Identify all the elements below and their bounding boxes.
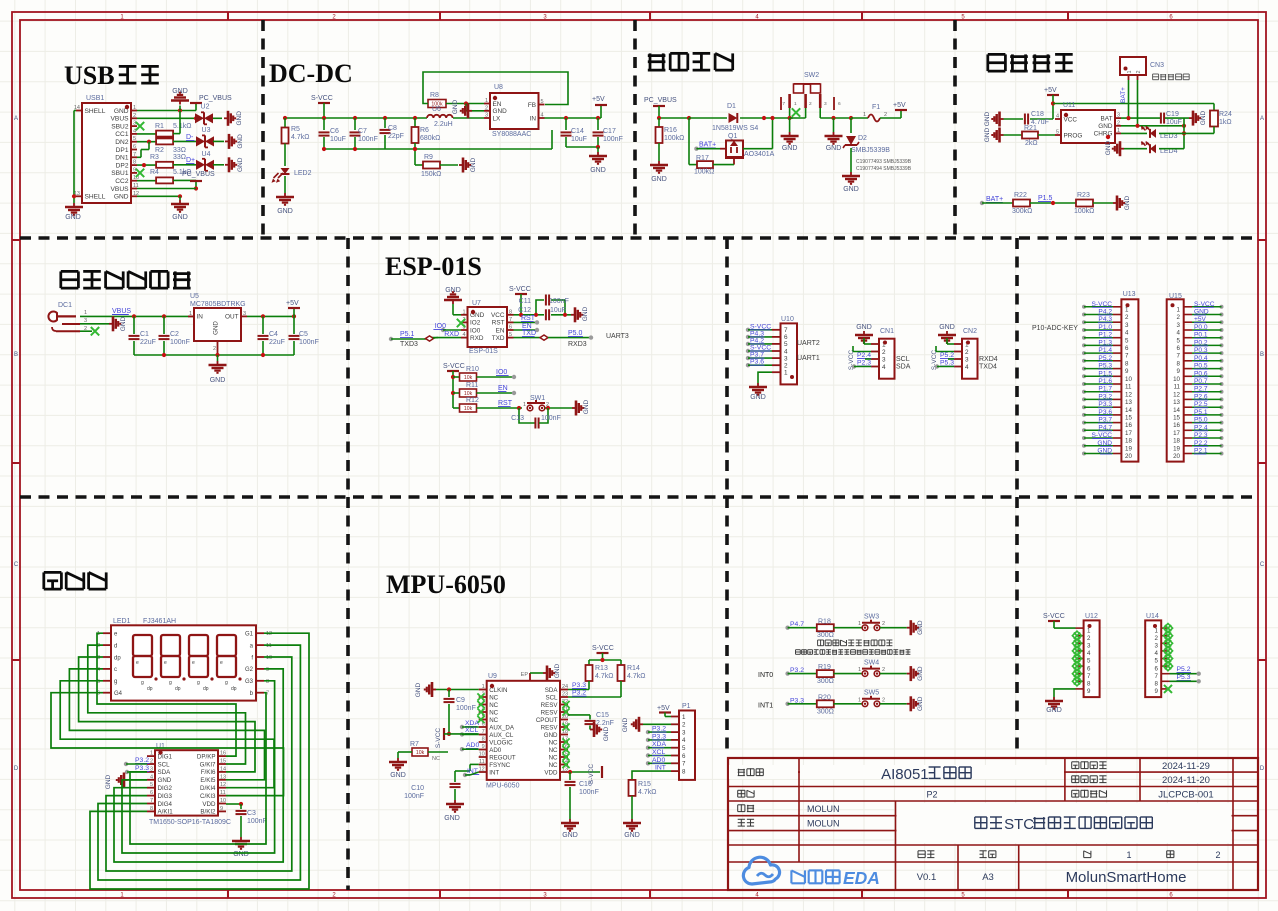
svg-text:GND: GND [917,666,924,681]
svg-text:VDD: VDD [544,769,558,776]
wire GND row to vertical [1121,125,1184,127]
svg-text:15: 15 [1125,415,1132,422]
svg-text:CN3: CN3 [1150,62,1164,69]
resistor R23 100k [1076,200,1093,207]
wire shell left [74,110,76,112]
wire d2 gnd [850,148,852,172]
svg-text:6: 6 [1125,345,1129,352]
wire r14 to SCL [620,681,622,697]
svg-text:SY8088AAC: SY8088AAC [492,131,531,138]
capacitor C3 100nF [226,803,241,805]
svg-text:U15: U15 [1169,293,1182,300]
svg-text:G3: G3 [245,679,254,685]
svg-text:GND: GND [984,111,991,126]
svg-text:DN1: DN1 [115,155,129,162]
svg-text:MolunSmartHome: MolunSmartHome [1066,869,1187,886]
resistor R24 1k [1210,111,1218,127]
ground GND right of U4 [225,164,229,166]
svg-text:C12: C12 [518,307,531,314]
svg-text:1N5819WS S4: 1N5819WS S4 [712,125,758,132]
ground GND d2 [850,172,852,176]
svg-text:GND: GND [65,214,81,221]
svg-text:RST: RST [498,400,513,407]
svg-text:P3.7: P3.7 [750,352,764,359]
svg-text:8: 8 [682,768,686,775]
svg-text:5: 5 [1087,658,1091,665]
ground GND SW4 [907,673,911,675]
svg-text:+5V: +5V [592,96,605,103]
svg-text:7: 7 [1125,353,1129,360]
svg-text:PC_VBUS: PC_VBUS [644,97,677,104]
svg-text:33Ω: 33Ω [173,147,186,154]
svg-text:NC: NC [489,709,498,716]
resistor R21 2k [1004,134,1023,136]
svg-text:P5.2: P5.2 [1098,355,1112,362]
svg-text:SW4: SW4 [864,659,879,666]
svg-text:8: 8 [1155,681,1159,688]
ground GND sw1 [572,407,576,409]
svg-text:1: 1 [150,751,153,757]
svg-text:NC: NC [489,702,498,709]
svg-text:2: 2 [882,667,885,673]
svg-text:GND: GND [856,324,872,331]
wire CC1 to R1 [137,133,156,135]
svg-text:GND: GND [158,777,172,784]
svg-text:SDA: SDA [158,769,172,776]
svg-text:g: g [141,680,144,686]
svg-text:GND: GND [1097,440,1112,447]
svg-text:RESV: RESV [541,702,559,709]
wire VBUS pin11 [137,188,196,190]
svg-text:G/KI7: G/KI7 [200,761,216,768]
svg-text:INT: INT [489,769,499,776]
svg-text:2: 2 [965,349,969,356]
resistor R8 feedback [428,100,446,108]
no-connect sw2 [792,108,800,116]
svg-text:U9: U9 [488,673,497,680]
svg-text:20: 20 [1173,453,1180,460]
svg-text:23: 23 [562,692,568,698]
svg-text:GND: GND [582,306,589,321]
svg-text:BAT: BAT [1101,115,1113,122]
svg-text:P1.5: P1.5 [1098,370,1112,377]
svg-text:CC2: CC2 [115,178,129,185]
no-connect SBU1 [136,169,144,177]
svg-text:100nF: 100nF [247,818,267,825]
ground GND c15 [590,729,594,731]
svg-text:R19: R19 [818,664,831,671]
resistor R9 150k [415,164,423,166]
svg-text:P0.5: P0.5 [1194,363,1208,370]
section divider horizontal lower [20,495,1258,499]
svg-text:14: 14 [220,766,226,772]
svg-text:4: 4 [1155,650,1159,657]
svg-text:9: 9 [266,667,269,673]
svg-text:2.2nF: 2.2nF [596,720,614,727]
svg-text:c: c [114,667,117,673]
svg-text:V0.1: V0.1 [917,872,937,883]
svg-text:SCL: SCL [896,356,910,363]
title label schematic [738,769,740,776]
TVS diode U4 [196,160,205,170]
svg-text:C7: C7 [358,128,367,135]
svg-text:NC: NC [549,754,558,761]
wire r13 to SDA [588,681,590,690]
svg-text:D: D [1260,766,1265,772]
section title lamp supply [61,270,79,273]
svg-text:D2: D2 [858,135,867,142]
svg-text:STC: STC [1004,816,1034,833]
svg-text:CN1: CN1 [880,328,894,335]
svg-text:2: 2 [1136,70,1142,73]
wire out rail [247,315,294,317]
svg-text:15: 15 [220,759,226,765]
display wire loops left [97,633,236,756]
svg-text:P3.2: P3.2 [652,726,666,733]
svg-text:2: 2 [809,101,812,107]
svg-text:dp: dp [231,686,237,692]
title value board name [975,816,987,818]
LED LED2 [281,168,290,174]
capacitor C18 4.7uF [1004,118,1024,120]
svg-text:14: 14 [1125,407,1132,414]
capacitor C4 22uF [262,316,264,334]
svg-text:R1: R1 [155,123,164,130]
svg-text:100kΩ: 100kΩ [1074,208,1094,215]
svg-text:E/KI5: E/KI5 [200,777,216,784]
svg-text:EP: EP [521,672,529,678]
svg-text:150kΩ: 150kΩ [421,171,441,178]
section divider vertical USB/DC-DC [261,20,265,238]
svg-text:17: 17 [1173,430,1180,437]
connector P1 [679,711,695,780]
svg-text:GND: GND [917,696,924,711]
svg-text:R23: R23 [1077,192,1090,199]
title label size [980,850,987,852]
svg-text:24: 24 [562,684,568,690]
power flag PC_VBUS lower [190,180,202,182]
svg-text:1: 1 [858,697,861,703]
wire DN2 jog to DN1 [148,142,150,150]
svg-text:U14: U14 [1146,613,1159,620]
svg-text:GND: GND [1098,123,1113,130]
svg-text:C1: C1 [140,331,149,338]
svg-text:GND: GND [939,324,955,331]
svg-text:12: 12 [479,767,485,773]
svg-text:10k: 10k [416,750,425,756]
svg-text:GND: GND [826,145,842,152]
svg-text:U4: U4 [202,151,211,158]
svg-text:5: 5 [150,782,153,788]
svg-text:SW3: SW3 [864,613,879,620]
svg-text:18: 18 [1125,438,1132,445]
no-connect diamonds U12 [1072,631,1081,640]
svg-text:C19077494 SMBJ5339B: C19077494 SMBJ5339B [856,166,912,172]
svg-text:P5.0: P5.0 [1194,417,1208,424]
svg-text:GND: GND [445,287,461,294]
svg-text:U12: U12 [1085,613,1098,620]
svg-text:P4.3: P4.3 [1098,316,1112,323]
svg-text:300kΩ: 300kΩ [1012,208,1032,215]
svg-text:6: 6 [1177,345,1181,352]
ground GND usb shell [73,203,75,207]
svg-text:8: 8 [266,679,269,685]
svg-text:C8: C8 [388,125,397,132]
ground GND esp vcc [571,314,575,316]
svg-text:3: 3 [150,766,153,772]
svg-text:DC-DC: DC-DC [269,59,353,88]
section divider vertical ESP/headers [725,238,729,497]
svg-text:P4.2: P4.2 [1098,309,1112,316]
svg-text:INT0: INT0 [758,672,773,679]
svg-text:1: 1 [523,402,526,408]
svg-text:C10: C10 [411,785,424,792]
svg-text:6: 6 [1087,665,1091,672]
svg-text:22uF: 22uF [269,339,285,346]
wire vdd svcc [568,771,600,773]
svg-text:F/KI6: F/KI6 [201,769,216,776]
svg-text:SDA: SDA [896,364,911,371]
resistor R12 [453,407,459,409]
wire feedback loop top [423,72,568,105]
svg-text:GND: GND [233,851,249,858]
svg-text:SBU1: SBU1 [111,170,129,177]
wire DN2 to R2 [137,141,156,143]
svg-text:8: 8 [1177,360,1181,367]
ground GND r21 [1000,134,1004,136]
svg-text:d: d [114,643,117,649]
svg-text:R16: R16 [664,127,677,134]
svg-text:4: 4 [1177,330,1181,337]
svg-text:P3.3: P3.3 [652,733,666,740]
svg-text:CPOUT: CPOUT [536,717,558,724]
fuse F1 [851,117,868,119]
svg-text:1: 1 [133,105,136,111]
pin header CN1 [879,339,895,379]
pin header U13 [1121,299,1138,461]
section divider vertical DC-DC/power-switch [633,20,637,238]
svg-text:IO2: IO2 [470,320,481,327]
svg-text:GND: GND [624,832,640,839]
svg-text:SCL: SCL [545,694,558,701]
svg-text:10k: 10k [464,375,473,381]
svg-text:UART3: UART3 [606,333,629,340]
svg-text:FJ3461AH: FJ3461AH [143,618,176,625]
svg-text:IO0: IO0 [496,369,507,376]
svg-text:4.7kΩ: 4.7kΩ [595,673,613,680]
svg-text:GND: GND [590,167,606,174]
power flag PC_VBUS usb top [195,104,197,111]
svg-text:P1.2: P1.2 [1098,332,1112,339]
svg-text:XCL: XCL [465,727,478,734]
svg-text:100nF: 100nF [170,339,190,346]
svg-text:AUX_CL: AUX_CL [489,732,514,739]
capacitor C2 100nF [162,314,166,318]
svg-text:C: C [14,562,19,568]
svg-text:MOLUN: MOLUN [807,804,840,814]
svg-text:e: e [164,660,167,666]
section title digit display [44,571,62,574]
svg-text:10uF: 10uF [550,307,566,314]
svg-text:DIG2: DIG2 [158,785,173,792]
svg-text:P2.4: P2.4 [857,352,871,359]
net label EN esp [514,329,537,331]
svg-text:C15: C15 [596,712,609,719]
svg-text:18: 18 [1173,438,1180,445]
svg-text:NC: NC [489,694,498,701]
wire sw2 left post to rail [789,108,791,118]
title block row patches [729,765,798,779]
title label drawn [738,811,745,813]
svg-text:SMBJ5339B: SMBJ5339B [851,147,890,154]
ground GND r9 [459,164,463,166]
svg-text:DP1: DP1 [116,147,129,154]
svg-text:GND: GND [603,726,610,741]
capacitor C11 100nF [545,295,547,306]
wire IN to +5V [545,117,602,119]
svg-text:F1: F1 [872,104,880,111]
svg-text:TXD: TXD [492,335,505,342]
svg-text:UART1: UART1 [797,355,820,362]
svg-text:4.7kΩ: 4.7kΩ [627,673,645,680]
section divider vertical buttons right [1015,497,1019,756]
svg-text:6: 6 [133,144,136,150]
svg-text:1: 1 [482,684,485,690]
svg-text:GND: GND [1105,140,1112,155]
section divider vertical headers right [1015,238,1019,497]
ground GND led4 [1120,148,1124,150]
title label material code [1072,789,1079,791]
svg-text:Q1: Q1 [728,133,737,140]
capacitor C6 10uF [323,118,325,130]
resistor R19 300 [817,670,834,677]
wire U10 pin1 gnd [758,372,772,383]
svg-text:300Ω: 300Ω [817,632,834,639]
svg-text:C11: C11 [519,298,531,305]
svg-text:GND: GND [114,194,129,201]
svg-text:GND: GND [554,663,561,678]
resistor R2 33 [156,138,173,144]
svg-text:SW1: SW1 [530,395,545,402]
svg-text:2: 2 [150,759,153,765]
svg-text:TXD3: TXD3 [400,341,418,348]
svg-text:R3: R3 [150,154,159,161]
svg-text:U5: U5 [190,293,199,300]
svg-text:P2.3: P2.3 [857,360,871,367]
svg-text:P2.1: P2.1 [1194,448,1208,455]
svg-text:XCL: XCL [652,749,665,756]
svg-text:4.7kΩ: 4.7kΩ [638,789,656,796]
wire main switch rail [659,117,688,119]
svg-text:7: 7 [150,798,153,804]
svg-text:3: 3 [1125,322,1129,329]
svg-text:4: 4 [1087,650,1091,657]
TVS diode U3 [196,136,205,146]
svg-text:dp: dp [114,655,121,661]
capacitor C5 100nF [293,316,295,334]
svg-text:CN2: CN2 [963,328,977,335]
svg-text:S-VCC: S-VCC [750,345,771,352]
svg-text:IN: IN [197,314,204,321]
svg-text:16: 16 [1173,422,1180,429]
section divider vertical display/MPU [346,497,350,890]
ground GND r15 [631,796,633,819]
svg-text:D/KI4: D/KI4 [200,785,216,792]
svg-text:NC: NC [432,756,440,762]
wire CN3 pin2 to gnd row [1137,80,1139,126]
wire GND pin12 [137,195,180,197]
svg-text:2: 2 [882,697,885,703]
net label RST esp [514,321,537,323]
ground GND dc1 pin3 [80,323,109,325]
capacitor C15 2.2nF [568,714,590,716]
IC U9 MPU-6050 [487,681,560,780]
wire R6 to R9 [414,143,416,165]
ground GND clkin [436,689,479,691]
svg-text:+5V: +5V [1194,316,1207,323]
power flag +5V dcdc [600,106,602,118]
svg-text:8: 8 [133,160,136,166]
svg-text:GND: GND [583,399,590,414]
svg-text:20: 20 [1125,453,1132,460]
svg-text:7: 7 [784,327,788,334]
ground GND SW3 [907,627,911,629]
svg-text:2.2uH: 2.2uH [434,121,453,128]
wire cn2 pin1 gnd [947,343,954,345]
svg-text:DIG4: DIG4 [158,801,173,808]
svg-text:P2.5: P2.5 [1194,401,1208,408]
svg-text:100nF: 100nF [579,789,599,796]
net label P5.3 cn2 [935,364,939,368]
svg-text:EN: EN [493,101,502,108]
ground GND p1 [643,723,671,725]
ground GND u12 [1053,697,1055,701]
svg-text:FB: FB [528,102,536,109]
svg-text:14: 14 [1173,407,1180,414]
svg-text:3: 3 [784,355,788,362]
svg-text:2kΩ: 2kΩ [1025,140,1038,147]
svg-text:P10-ADC-KEY: P10-ADC-KEY [1032,325,1078,332]
svg-text:U6: U6 [432,106,441,113]
capacitor C17 100nF [597,118,599,130]
wire R8 to EN pin [446,103,484,105]
svg-text:e: e [136,660,139,666]
svg-text:R6: R6 [420,127,429,134]
section title power switch [649,53,652,70]
svg-text:MPU-6050: MPU-6050 [486,783,520,790]
svg-text:1: 1 [1125,306,1129,313]
pin header U15 [1167,299,1184,461]
svg-text:GND: GND [622,717,629,732]
svg-text:3: 3 [1087,643,1091,650]
svg-text:1: 1 [1177,306,1181,313]
resistor R14 4.7k [618,665,625,681]
wire R3 to U4 net D+ [173,164,197,166]
svg-text:10: 10 [1125,376,1132,383]
svg-text:P3.7: P3.7 [1098,417,1112,424]
svg-text:3: 3 [824,101,827,107]
svg-text:22uF: 22uF [140,339,156,346]
svg-text:9: 9 [1125,368,1129,375]
svg-text:7: 7 [1177,353,1181,360]
svg-text:P1.5: P1.5 [1038,195,1053,202]
resistor R15 4.7k [629,780,636,796]
svg-text:2: 2 [485,105,488,111]
svg-text:R21: R21 [1024,125,1037,132]
svg-text:ESP-01S: ESP-01S [469,348,498,355]
svg-text:RXD4: RXD4 [979,356,998,363]
svg-text:7: 7 [682,761,686,768]
